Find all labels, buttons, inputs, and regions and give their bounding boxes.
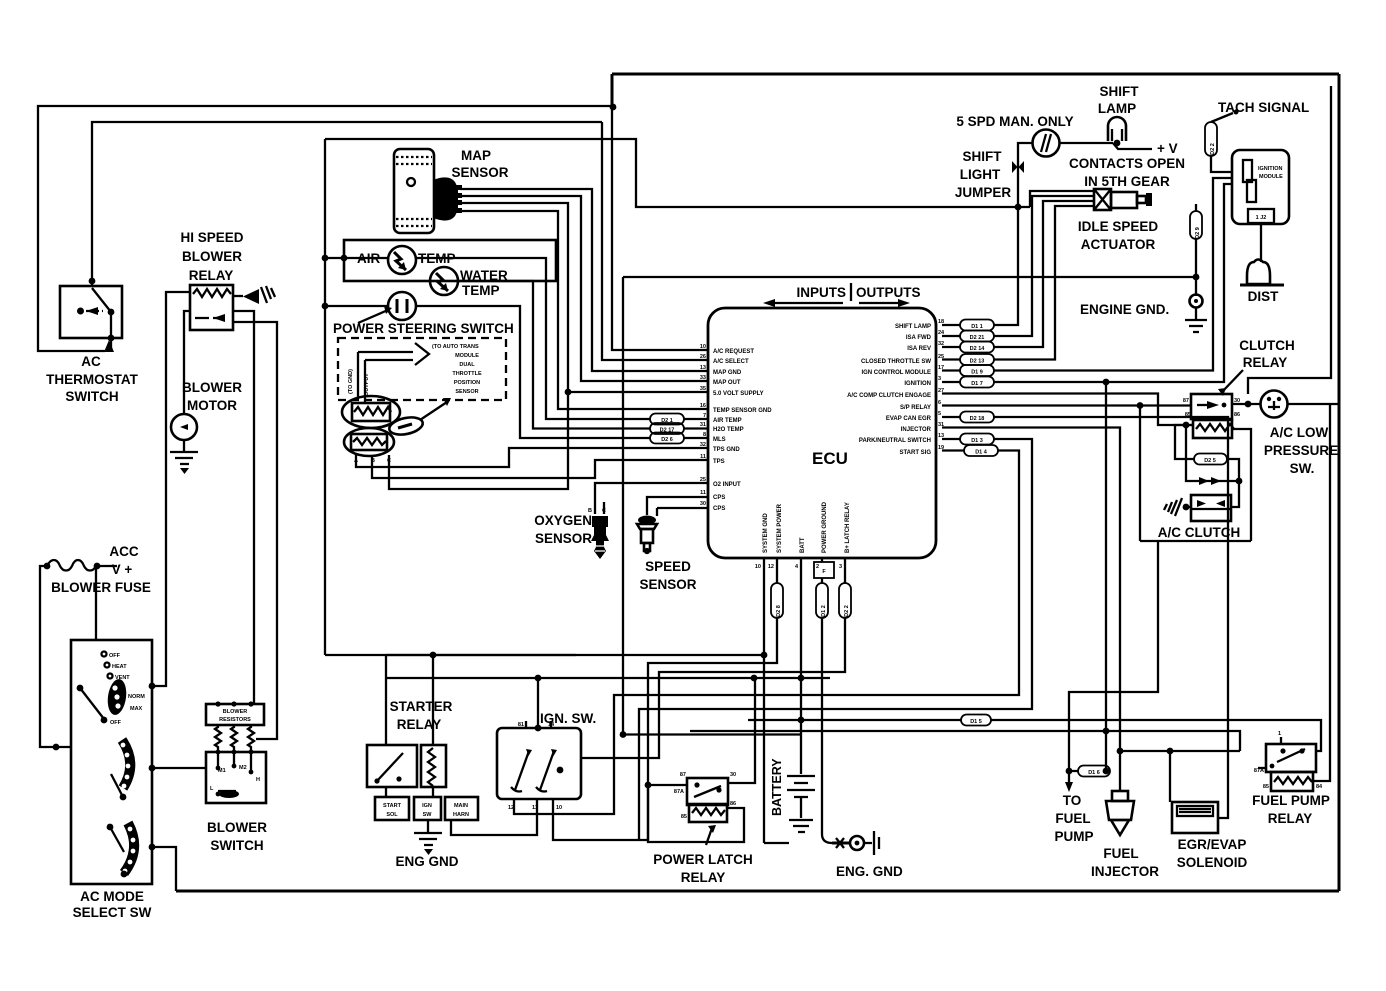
bus 709 [639,439,1032,840]
svg-text:POSITION: POSITION [454,380,480,386]
wire air temp row [344,258,650,419]
wire relay to blower motor [184,311,190,414]
svg-text:CLOSED THROTTLE SW: CLOSED THROTTLE SW [861,359,931,365]
node coil left [1183,422,1190,429]
svg-text:INPUTS: INPUTS [796,285,846,300]
note chevron arrow [415,343,429,365]
svg-text:LAMP: LAMP [1098,101,1136,116]
svg-text:D1 5: D1 5 [970,719,982,725]
svg-text:8: 8 [703,432,706,438]
wire injector output [942,428,1120,752]
thermostat switch blade [92,288,111,312]
svg-text:MAIN: MAIN [454,803,468,809]
svg-text:11: 11 [700,454,706,460]
svg-text:D2 9: D2 9 [1195,227,1201,239]
connector pill D1 7 [942,377,994,388]
svg-text:RELAY: RELAY [189,268,234,283]
svg-text:D1 9: D1 9 [971,370,983,376]
svg-text:ISA REV: ISA REV [907,346,931,352]
power latch relay contact box [674,772,736,805]
svg-text:SENSOR: SENSOR [455,389,478,395]
wire closed throttle [994,206,1094,360]
connector pill D1 2 vertical [816,578,828,618]
wire B+ latch to ign switch area [581,618,845,758]
svg-text:BLOWER: BLOWER [182,249,242,264]
diode rail [1186,425,1242,485]
wire coil right to AC clutch loop [1232,429,1251,541]
speed sensor body [637,516,657,554]
OFF contact lower [101,717,122,726]
wire TPS pin A to ECU TPS GND [356,448,708,467]
wire sensors bottom rail [325,654,576,656]
wire MAP pin1 to ECU MAP GND [460,189,708,371]
svg-text:SYSTEM GND: SYSTEM GND [763,513,769,553]
node W1 junction [610,104,617,111]
TPS feed lines to note arrow [358,352,413,404]
svg-text:MLS: MLS [713,437,726,443]
AC clutch coil box [1191,495,1231,521]
clutch relay leader arrow [1222,370,1243,392]
svg-text:SPEED: SPEED [645,559,691,574]
connector pill D2 17 [650,423,708,434]
svg-text:86: 86 [730,801,736,807]
wire latch feed [648,784,687,786]
label A/C LOW PRESSURE SW. [1264,425,1338,476]
svg-text:D2 5: D2 5 [1204,458,1216,464]
svg-text:ENGINE GND.: ENGINE GND. [1080,302,1169,317]
TPS pin letters [354,458,391,464]
wire starter contact to bus [385,655,387,745]
svg-text:BLOWER FUSE: BLOWER FUSE [51,580,151,595]
wire ISA FWD [994,196,1094,336]
label EGR/EVAP SOLENOID [1177,837,1248,870]
bus 655 [386,654,764,656]
svg-text:MAP: MAP [461,148,491,163]
wire latch pin 30 riser [728,678,755,783]
svg-text:CLUTCH: CLUTCH [1239,338,1295,353]
svg-text:11: 11 [700,490,706,496]
ECU bottom pin numbers [755,564,842,570]
connector pill D2 18 [942,412,994,423]
throttle position sensor TPS body [342,396,400,456]
svg-text:D2 14: D2 14 [970,346,986,352]
svg-text:BLOWER: BLOWER [207,820,267,835]
engine gnd bus horizontal [623,276,1196,278]
engine ground bolt symbol [832,831,879,855]
svg-text:ENG GND: ENG GND [395,854,458,869]
wire AC comp clutch engage [942,394,1193,426]
connector pill D1 1 [942,320,994,331]
svg-text:IGNITION: IGNITION [1258,166,1282,172]
svg-text:D2 21: D2 21 [970,335,985,341]
svg-text:33: 33 [700,375,706,381]
svg-text:INJECTOR: INJECTOR [1091,864,1159,879]
svg-text:MAP GND: MAP GND [713,370,742,376]
ECU bottom rotated labels [763,501,851,553]
svg-text:3: 3 [839,564,842,570]
label FUEL PUMP RELAY [1252,793,1330,826]
ground symbol right of relay [233,286,275,304]
svg-text:POWER GROUND: POWER GROUND [822,501,828,553]
resistor R2 [231,725,237,750]
mode positions OFF HEAT VENT [102,652,131,682]
svg-text:32: 32 [700,442,706,448]
air temp box [344,240,556,281]
svg-text:START: START [383,803,402,809]
wire air box to left rail [325,257,344,259]
blower fuse F1 [44,560,117,571]
label HI SPEED BLOWER RELAY [180,230,243,283]
svg-text:A/C CLUTCH: A/C CLUTCH [1158,525,1241,540]
blower motor ground [170,440,198,474]
svg-text:BATT: BATT [800,537,806,553]
svg-text:SENSOR: SENSOR [451,165,508,180]
wire coil left to pill D2 5 [1175,425,1194,459]
to fuel pump arrow [1065,771,1073,792]
svg-text:ECU: ECU [812,449,848,468]
rotary segment middle [121,740,131,788]
label AIR TEMP [357,251,456,266]
bus 695 via ign switch [514,451,1019,815]
svg-text:RELAY: RELAY [397,717,442,732]
wire EVAP CAN EGR [994,417,1228,818]
svg-text:D2 6: D2 6 [661,437,673,443]
label POWER LATCH RELAY [653,852,753,885]
svg-text:D2 2: D2 2 [844,605,850,617]
wire water temp to ECU H2O row [458,281,650,429]
connector pill D1 4 [942,445,998,456]
svg-text:MODULE: MODULE [1259,174,1283,180]
svg-text:OFF: OFF [110,720,122,726]
EGR/EVAP solenoid body [1172,802,1218,833]
TPS note text [432,344,482,395]
svg-text:87A: 87A [674,789,684,795]
ignition module box [1232,150,1289,224]
power latch relay coil box [681,801,736,822]
blower motor M1 [171,414,197,440]
wire fuse left leg down to AC mode box [40,566,71,747]
frame right border [1338,74,1341,891]
dashed box TPS note [338,338,506,400]
svg-text:D1 3: D1 3 [971,438,983,444]
wire SP relay row into contact [1232,403,1261,405]
svg-text:V +: V + [112,562,133,577]
svg-text:SENSOR: SENSOR [535,531,592,546]
wire ign sw pin to 840 rail [553,799,648,840]
svg-text:AIR TEMP: AIR TEMP [713,418,742,424]
svg-text:25: 25 [700,477,706,483]
svg-text:MAP OUT: MAP OUT [713,380,741,386]
ECU power ground wire [821,558,823,562]
ECU right pin labels [847,324,932,456]
svg-text:THERMOSTAT: THERMOSTAT [46,372,138,387]
svg-text:MAX: MAX [130,706,143,712]
svg-text:OXYGEN: OXYGEN [534,513,592,528]
rotary segment lower [123,823,136,873]
connector pill D2 5 [1194,454,1227,465]
wire PS switch to left rail [325,305,388,307]
label INPUTS OUTPUTS [763,283,921,307]
svg-text:S/P RELAY: S/P RELAY [900,405,931,411]
svg-text:A/C REQUEST: A/C REQUEST [713,349,754,355]
svg-text:O2 INPUT: O2 INPUT [713,482,741,488]
svg-text:86: 86 [1234,412,1240,418]
fuel injector body [1106,791,1134,835]
AC clutch section bottom rail [1140,540,1251,542]
ign switch box [497,722,581,811]
AC mode select switch box [71,640,152,884]
latch leader arrow [706,828,712,845]
resistor R1 [215,725,221,750]
svg-text:TPS GND: TPS GND [713,447,740,453]
selector lever lower [110,827,124,852]
wire bus to EGR rail [1120,750,1240,752]
svg-text:26: 26 [700,354,706,360]
blower switch box [206,750,266,803]
svg-text:SOL: SOL [386,812,398,818]
wire relay right pin to blower resistors [233,311,254,704]
wire ign sw pin 11 [451,799,537,835]
node ignition branch [1103,379,1110,386]
wire speed sensor to ECU CPS second [657,508,708,516]
svg-text:D1 7: D1 7 [971,381,983,387]
wire oxygen sensor to ECU O2 input [595,483,708,514]
node 5V supply junction [565,389,572,396]
svg-text:TEMP SENSOR GND: TEMP SENSOR GND [713,408,772,414]
bus 720 [748,720,1321,751]
label SHIFT LIGHT JUMPER [955,149,1012,200]
bus 678 [386,677,830,679]
svg-text:10: 10 [556,805,562,811]
svg-text:POWER STEERING SWITCH: POWER STEERING SWITCH [333,321,514,336]
svg-text:SW.: SW. [1290,461,1315,476]
label AC THERMOSTAT SWITCH [46,354,138,404]
starter eng gnd [414,820,442,855]
svg-text:SHIFT: SHIFT [1100,84,1140,99]
svg-text:IGN: IGN [422,803,432,809]
svg-text:LIGHT: LIGHT [960,167,1001,182]
svg-text:OUTPUTS: OUTPUTS [856,285,921,300]
svg-text:D1 1: D1 1 [971,324,983,330]
svg-text:SWITCH: SWITCH [65,389,118,404]
connector pill D2 2 vertical [839,583,851,618]
svg-text:(TO AUTO TRANS: (TO AUTO TRANS [432,344,479,350]
wire AC mode lower to bottom bus [152,847,176,891]
svg-text:31: 31 [700,422,706,428]
svg-text:BATTERY: BATTERY [770,758,784,816]
svg-text:RELAY: RELAY [1243,355,1288,370]
svg-text:A/C LOW: A/C LOW [1270,425,1329,440]
svg-text:SWITCH: SWITCH [210,838,263,853]
label TO FUEL PUMP [1054,793,1093,844]
svg-text:HI SPEED: HI SPEED [180,230,243,245]
wire pill D2 5 to diode rail [1227,459,1239,481]
node W2 at thermostat [89,278,96,285]
svg-text:SHIFT LAMP: SHIFT LAMP [895,324,931,330]
wire S/P relay output [942,404,1191,406]
resistor R3 [248,725,254,750]
svg-text:(TO GND): (TO GND) [348,369,354,394]
starter relay contact box [367,745,417,787]
svg-text:MODULE: MODULE [455,353,479,359]
svg-text:35: 35 [700,386,706,392]
wire diode rail to AC clutch [1231,481,1239,507]
wire IGN control module [994,178,1232,371]
svg-text:TPS: TPS [713,459,725,465]
svg-text:SYSTEM POWER: SYSTEM POWER [777,503,783,553]
ECU bottom system power wire [776,558,778,583]
wire MAP pin2 to ECU MAP OUT [460,196,708,381]
svg-text:TEMP: TEMP [462,283,500,298]
shift lamp bulb [1108,117,1126,146]
blower resistors box [206,701,264,725]
svg-text:85: 85 [1185,412,1191,418]
label BLOWER MOTOR [182,380,242,413]
distributor DIST [1240,260,1284,286]
svg-text:CPS: CPS [713,506,725,512]
svg-text:1: 1 [1278,731,1281,737]
svg-text:RESISTORS: RESISTORS [219,717,251,723]
frame left border top segment [611,74,614,107]
label CLUTCH RELAY [1239,338,1295,370]
connector pill D2 14 [942,342,994,353]
wire W2 second bus [92,122,602,286]
svg-text:1 J2: 1 J2 [1256,215,1267,221]
ECU bottom pin system gnd wire [763,558,765,843]
wire speed sensor to ECU CPS [647,497,708,515]
svg-text:85: 85 [1263,784,1269,790]
wire from top to clutch relay pin 30 [1248,86,1331,394]
bus 731 [690,731,1240,751]
wire MAP pin3 to ECU 5V supply [460,203,708,392]
shift light jumper connector [1012,161,1024,173]
starter connector MAIN HARN [445,797,478,820]
relay K1 box [190,285,233,330]
svg-text:NORM: NORM [128,694,145,700]
svg-text:+ V: + V [1157,141,1178,156]
starter relay coil box [421,745,446,787]
label MAP SENSOR [451,148,508,180]
svg-text:D2 13: D2 13 [970,359,985,365]
ECU batt wire [800,558,802,774]
svg-text:RELAY: RELAY [681,870,726,885]
svg-text:7: 7 [703,413,706,419]
svg-text:AC: AC [81,354,101,369]
svg-text:SOLENOID: SOLENOID [1177,855,1248,870]
svg-text:13: 13 [700,365,706,371]
svg-text:2: 2 [816,564,819,570]
svg-text:ACTUATOR: ACTUATOR [1081,237,1156,252]
AC thermostat switch box [60,286,122,338]
starter connector START SOL [375,787,409,820]
label OXYGEN SENSOR [534,513,592,546]
clutch relay K2 coil box [1185,412,1240,438]
svg-text:A/C SELECT: A/C SELECT [713,359,749,365]
AC low pressure switch [1261,391,1288,418]
connector pill D1 6 [1066,766,1110,777]
wire sensors left rail [324,139,326,655]
wire top bus into actuator [1030,191,1094,207]
wire W1 arrow into thermostat [104,340,114,352]
wire MAP pin4 to ECU temp sensor gnd [460,211,708,409]
svg-text:5 SPD MAN. ONLY: 5 SPD MAN. ONLY [956,114,1073,129]
svg-text:RELAY: RELAY [1268,811,1313,826]
svg-text:IN 5TH GEAR: IN 5TH GEAR [1084,174,1170,189]
wire latch loop [648,785,744,842]
svg-text:10: 10 [755,564,761,570]
engine gnd bus riser [622,277,624,735]
wire ISA REV [994,201,1094,347]
svg-text:D2 18: D2 18 [970,416,985,422]
label STARTER RELAY [390,699,453,732]
svg-text:OFF: OFF [109,653,121,659]
ECU B+ latch relay wire [844,558,846,583]
relay K1 contact [195,317,225,319]
svg-text:ENG. GND: ENG. GND [836,864,903,879]
ECU right pin numbers [938,319,945,451]
svg-text:INJECTOR: INJECTOR [901,427,932,433]
svg-text:81: 81 [518,722,524,728]
wire ECU shift lamp output via jumper [994,143,1033,325]
svg-text:TO: TO [1063,793,1082,808]
svg-text:84: 84 [1316,784,1323,790]
wire S/P relay branch down [1139,406,1141,542]
wire lamp to +V [1113,143,1152,149]
svg-text:FUEL: FUEL [1103,846,1138,861]
power steering switch sensor [388,292,416,320]
svg-text:12: 12 [508,805,514,811]
frame top border [612,73,1339,76]
svg-text:IGNITION: IGNITION [904,381,931,387]
MAP sensor body [394,149,462,233]
svg-text:BLOWER: BLOWER [182,380,242,395]
svg-text:87: 87 [680,772,686,778]
wire PS switch to ECU MLS row [416,306,650,438]
label FUEL INJECTOR [1091,846,1159,879]
air temp sensor [388,246,416,274]
starter connector IGN SW [414,787,441,820]
wire relay lower right pin to blower switch [233,322,277,739]
ECU left pin numbers [700,344,706,507]
svg-text:A/C COMP CLUTCH ENGAGE: A/C COMP CLUTCH ENGAGE [847,393,931,399]
wire circle to lamp [1059,142,1113,144]
wire AC request from top bus [612,107,708,350]
svg-text:THROTTLE: THROTTLE [452,371,482,377]
wire power ground to engine gnd [822,618,834,843]
distributor stem [1260,224,1262,262]
svg-text:CONTACTS OPEN: CONTACTS OPEN [1069,156,1185,171]
connector pill D2 13 [942,354,994,365]
svg-text:5: 5 [938,411,941,417]
svg-text:D2 8: D2 8 [776,605,782,617]
svg-text:IDLE SPEED: IDLE SPEED [1078,219,1159,234]
svg-text:6: 6 [938,400,941,406]
wire fuse feed down into AC mode box [95,566,97,640]
svg-text:SENSOR: SENSOR [639,577,696,592]
wire ignition to fuel pump pill [1105,382,1107,771]
wire AC select from second bus [602,122,708,360]
frame bottom border [176,890,1339,893]
wire TPS pin B to ECU TPS [372,455,708,478]
svg-text:SHIFT: SHIFT [963,149,1003,164]
connector pill D1 9 [942,365,994,376]
connector pill D1 3 [942,434,994,445]
svg-text:DUAL: DUAL [459,362,475,368]
label IDLE SPEED ACTUATOR [1078,219,1159,252]
node engine gnd bus [1193,274,1200,281]
svg-text:BLOWER: BLOWER [223,709,247,715]
label ACC V+ BLOWER FUSE [51,544,151,595]
